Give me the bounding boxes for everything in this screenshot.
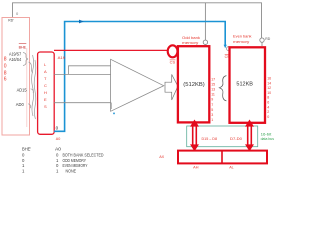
- svg-text:A0: A0: [55, 146, 62, 151]
- svg-text:10: 10: [267, 91, 271, 95]
- svg-text:E: E: [44, 97, 47, 102]
- svg-text:AD15: AD15: [17, 87, 28, 92]
- svg-text:ODD MEMORY: ODD MEMORY: [63, 158, 87, 163]
- svg-text:A19/S7: A19/S7: [9, 51, 22, 56]
- svg-text:Odd bank: Odd bank: [182, 35, 200, 40]
- svg-text:16: 16: [267, 77, 271, 81]
- svg-text:16-bit: 16-bit: [261, 133, 272, 137]
- svg-text:A19: A19: [58, 56, 66, 60]
- svg-text:6: 6: [4, 77, 7, 83]
- svg-text:13: 13: [211, 88, 215, 92]
- svg-text:2: 2: [267, 110, 269, 114]
- svg-text:11: 11: [211, 93, 215, 97]
- svg-text:12: 12: [267, 86, 271, 90]
- svg-text:A16/S4: A16/S4: [9, 57, 22, 62]
- svg-text:8: 8: [4, 57, 7, 63]
- svg-text:EVEN MEMORY: EVEN MEMORY: [63, 163, 88, 168]
- svg-text:C: C: [44, 83, 47, 88]
- svg-text:BHE: BHE: [19, 44, 27, 49]
- svg-text:NONE: NONE: [66, 169, 77, 174]
- svg-text:D7-D0: D7-D0: [230, 137, 242, 141]
- svg-text:AH: AH: [193, 166, 199, 170]
- svg-text:A: A: [44, 69, 47, 74]
- svg-text:RD: RD: [265, 36, 270, 41]
- svg-text:H: H: [44, 90, 47, 95]
- svg-text:7: 7: [211, 103, 213, 107]
- svg-text:A0: A0: [56, 137, 61, 141]
- svg-text:AX: AX: [159, 154, 164, 159]
- svg-text:BHE': BHE': [22, 146, 31, 151]
- svg-text:0: 0: [4, 64, 7, 70]
- svg-text:AD0: AD0: [16, 102, 25, 107]
- svg-text:S: S: [44, 104, 47, 109]
- svg-text:3: 3: [211, 113, 213, 117]
- svg-text:4: 4: [267, 105, 269, 109]
- svg-text:6: 6: [267, 101, 269, 105]
- svg-text:512KB: 512KB: [236, 82, 253, 88]
- svg-text:memory: memory: [182, 40, 198, 45]
- svg-text:17: 17: [211, 78, 215, 82]
- svg-text:CS: CS: [170, 60, 176, 64]
- svg-text:memory: memory: [233, 39, 249, 44]
- svg-text:data bus: data bus: [261, 137, 275, 141]
- svg-text:RD': RD': [8, 18, 14, 23]
- svg-text:0: 0: [267, 115, 269, 119]
- svg-text:8: 8: [267, 96, 269, 100]
- svg-text:AL: AL: [229, 166, 234, 170]
- svg-text:14: 14: [267, 81, 271, 85]
- svg-text:(512KB): (512KB): [183, 82, 205, 88]
- svg-text:Even bank: Even bank: [233, 33, 252, 38]
- svg-text:9: 9: [211, 98, 213, 102]
- svg-text:D15 – D8: D15 – D8: [202, 137, 218, 141]
- svg-text:15: 15: [211, 83, 215, 87]
- svg-text:1: 1: [211, 118, 213, 122]
- svg-text:BOTH BANK SELECTED: BOTH BANK SELECTED: [63, 152, 104, 157]
- svg-text:5: 5: [211, 108, 213, 112]
